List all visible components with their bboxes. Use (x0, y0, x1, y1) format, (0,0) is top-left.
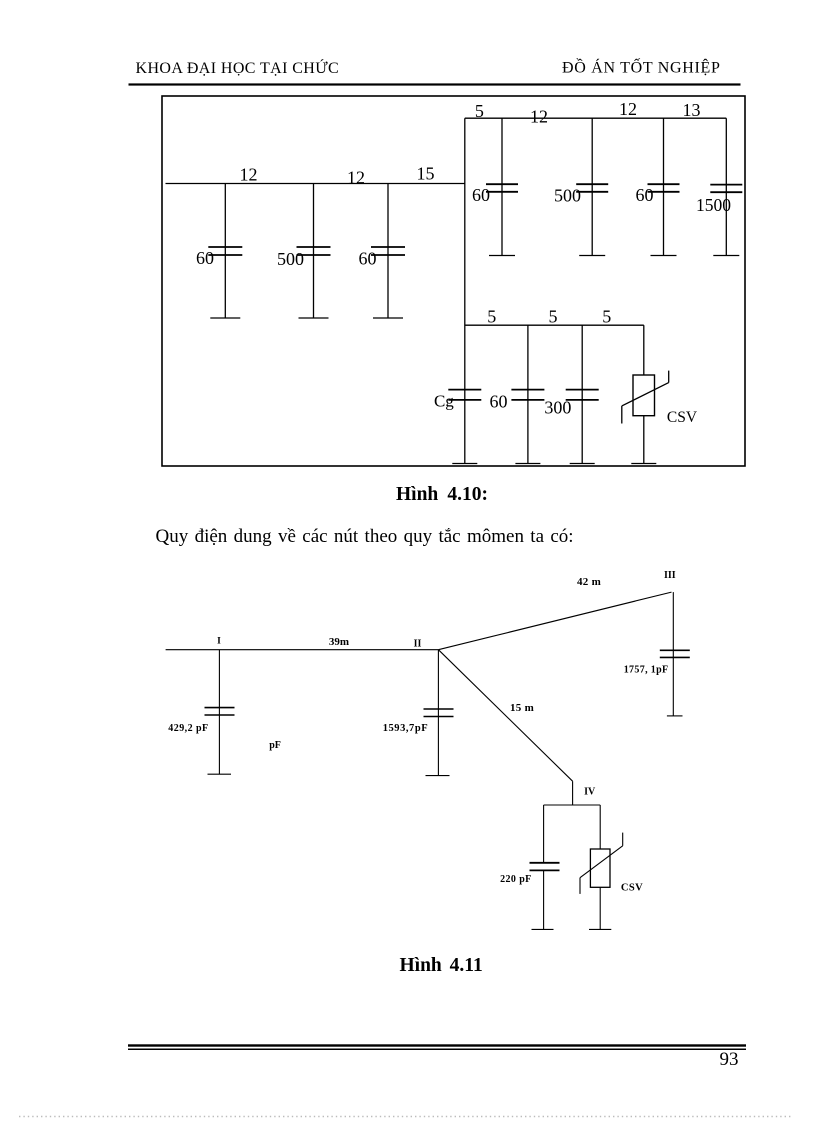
svg-text:1757, 1pF: 1757, 1pF (624, 665, 669, 676)
svg-text:1593,7pF: 1593,7pF (383, 723, 429, 734)
svg-text:Hình 4.11: Hình 4.11 (400, 955, 483, 976)
svg-text:Quy điện dung về các nút theo: Quy điện dung về các nút theo quy tắc mô… (156, 526, 574, 547)
svg-text:5: 5 (602, 306, 611, 326)
svg-text:III: III (664, 570, 676, 581)
wire: node II to node III (42 m line) (438, 592, 671, 650)
capacitor 60 (top 3) (648, 118, 680, 255)
svg-text:12: 12 (530, 107, 548, 127)
svg-text:KHOA ĐẠI HỌC TẠI CHỨC: KHOA ĐẠI HỌC TẠI CHỨC (136, 58, 340, 77)
SCHEMATIC 2 (166, 592, 672, 805)
footer double rule (128, 1044, 746, 1050)
capacitor 1500 (top 4) (710, 118, 742, 255)
svg-text:60: 60 (359, 249, 377, 269)
wire: node I to node II (166, 649, 439, 651)
capacitor 500 (left 2) (297, 184, 331, 319)
capacitor 60 (left 1) (208, 184, 242, 319)
svg-text:300: 300 (544, 398, 571, 418)
wire: main vertical bus (464, 118, 466, 389)
capacitor 1593,7pF at node II (424, 650, 454, 776)
svg-text:5: 5 (549, 306, 558, 326)
surge arrester CSV (622, 325, 669, 463)
surge arrester CSV at node IV (580, 805, 623, 929)
wire: top-right horizontal bus (465, 117, 727, 119)
svg-text:429,2 pF: 429,2 pF (168, 723, 208, 734)
svg-text:Hình 4.10:: Hình 4.10: (396, 484, 488, 505)
capacitor 60 (bottom) (511, 325, 544, 463)
capacitor 60 (top 1) (486, 118, 518, 255)
svg-text:5: 5 (487, 306, 496, 326)
svg-text:12: 12 (619, 99, 637, 119)
wire: lower branch horizontal (465, 324, 644, 326)
svg-text:ĐỒ ÁN TỐT NGHIỆP: ĐỒ ÁN TỐT NGHIỆP (562, 58, 721, 77)
svg-text:15 m: 15 m (510, 702, 534, 714)
capacitor 1757,1pF at node III (660, 592, 690, 716)
capacitor 429,2 pF at node I (205, 650, 235, 775)
header rule (129, 83, 741, 85)
footer dotted line (19, 1116, 793, 1118)
svg-text:12: 12 (347, 168, 365, 188)
svg-text:1500: 1500 (696, 195, 731, 215)
capacitor Cg (448, 390, 481, 464)
svg-text:93: 93 (720, 1049, 739, 1070)
svg-text:CSV: CSV (621, 883, 643, 894)
svg-text:I: I (217, 637, 221, 647)
svg-text:60: 60 (490, 392, 508, 412)
svg-text:Cg: Cg (434, 392, 454, 411)
svg-text:500: 500 (277, 249, 304, 269)
svg-text:12: 12 (240, 165, 258, 185)
svg-text:220 pF: 220 pF (500, 874, 532, 885)
svg-text:II: II (414, 639, 422, 650)
svg-text:500: 500 (554, 186, 581, 206)
svg-text:60: 60 (636, 185, 654, 205)
SCHEMATIC 1 (166, 118, 727, 389)
wire: vertical jog into node IV (572, 781, 574, 805)
svg-text:IV: IV (584, 787, 596, 798)
svg-text:5: 5 (475, 101, 484, 121)
svg-text:42 m: 42 m (577, 576, 601, 588)
capacitor 220 pF at node IV (530, 805, 560, 929)
svg-text:60: 60 (196, 248, 214, 268)
svg-text:13: 13 (683, 100, 701, 120)
figure 4.10 frame (162, 96, 745, 466)
svg-text:15: 15 (417, 164, 435, 184)
capacitor 300 (bottom) (566, 325, 599, 463)
svg-text:60: 60 (472, 185, 490, 205)
wire: node II to node IV (15 m line) (438, 650, 572, 782)
svg-text:pF: pF (269, 740, 281, 751)
svg-text:CSV: CSV (667, 409, 698, 426)
svg-text:39m: 39m (329, 636, 349, 648)
capacitor 60 (left 3) (371, 184, 405, 319)
wire: left horizontal bus (166, 183, 465, 185)
capacitor 500 (top 2) (576, 118, 608, 255)
wire: node IV horizontal (544, 804, 601, 806)
